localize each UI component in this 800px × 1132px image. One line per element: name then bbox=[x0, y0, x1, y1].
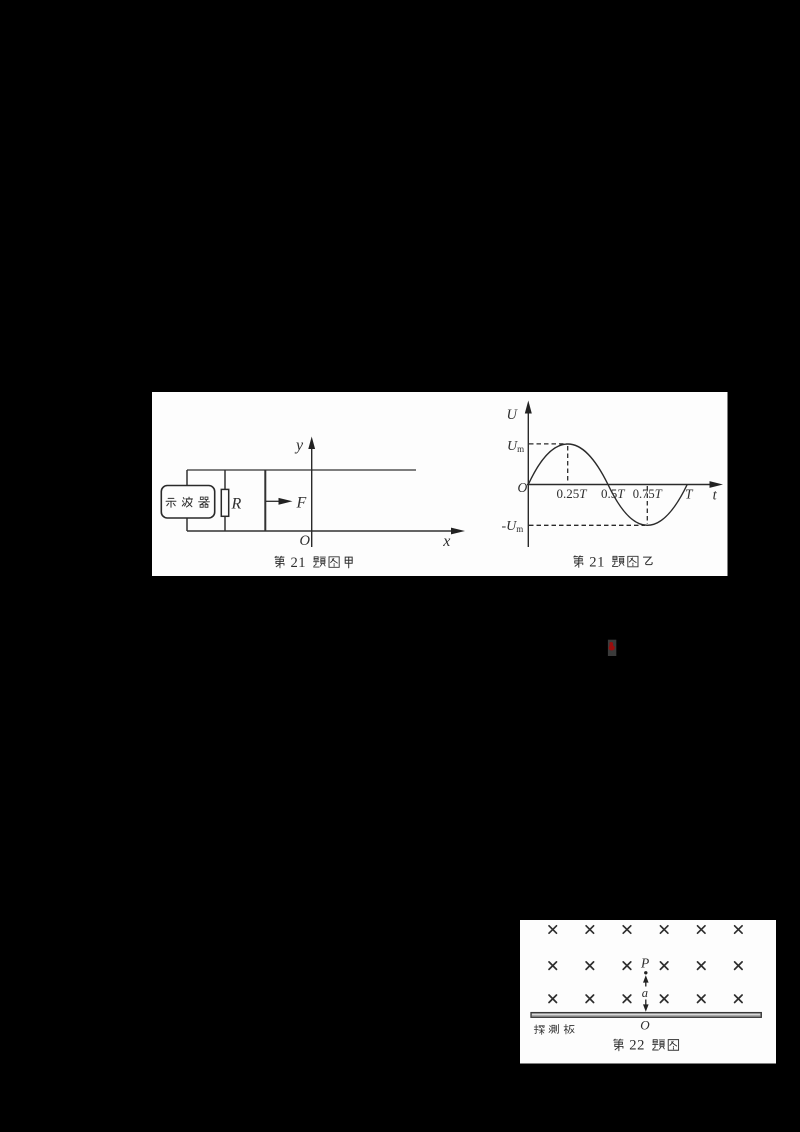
wire through resistor R bbox=[224, 470, 226, 490]
oscilloscope label 器 bbox=[199, 497, 210, 507]
y-axis arrowhead bbox=[308, 437, 315, 450]
y-axis line bbox=[311, 444, 313, 547]
caption 第 21 题图甲 bbox=[275, 556, 284, 568]
oscilloscope label 波 bbox=[182, 497, 192, 507]
x-axis arrowhead bbox=[451, 528, 465, 535]
figure panel 22 (white) bbox=[520, 920, 776, 1064]
point P dot bbox=[644, 971, 647, 974]
sine curve U(t) bbox=[528, 444, 687, 525]
svg-text:O: O bbox=[518, 480, 528, 495]
dimension arrow up (to P) bbox=[645, 980, 647, 987]
svg-text:P: P bbox=[640, 955, 649, 970]
dashed line peak down to 0.25T bbox=[567, 446, 569, 484]
force arrow F head bbox=[279, 498, 293, 505]
t axis arrowhead bbox=[710, 481, 724, 488]
svg-text:O: O bbox=[640, 1018, 650, 1033]
U axis (vertical) bbox=[527, 408, 529, 547]
label 探测板 bbox=[534, 1025, 544, 1035]
U axis arrowhead bbox=[525, 401, 532, 414]
dashed line 0.75T down to trough bbox=[646, 486, 648, 524]
resistor R body bbox=[221, 489, 228, 516]
svg-text:U: U bbox=[507, 407, 519, 423]
wire top rail bbox=[187, 469, 416, 471]
caption 第 21 题图乙 bbox=[574, 556, 583, 568]
wire bottom rail / x-axis bbox=[187, 530, 453, 532]
svg-text:O: O bbox=[300, 533, 311, 549]
red ink mark on black area bbox=[608, 640, 616, 656]
detector plate bar bbox=[531, 1013, 761, 1018]
oscilloscope label 示 bbox=[166, 498, 176, 507]
svg-text:F: F bbox=[296, 495, 307, 512]
force arrow F shaft bbox=[266, 500, 281, 502]
svg-text:a: a bbox=[642, 986, 648, 1000]
field cross grid (B into page) bbox=[549, 926, 742, 1003]
svg-text:x: x bbox=[442, 533, 450, 550]
cross row 1 bbox=[549, 926, 557, 933]
svg-text:22: 22 bbox=[629, 1038, 645, 1054]
svg-text:0.25T: 0.25T bbox=[557, 486, 588, 501]
caption 第 22 题图 bbox=[614, 1039, 623, 1051]
conducting rod bbox=[264, 470, 266, 531]
svg-text:0.75T: 0.75T bbox=[633, 487, 663, 501]
svg-text:0.5T: 0.5T bbox=[601, 486, 625, 501]
figure panel 21 (white) bbox=[152, 392, 728, 576]
wire left vertical (to oscilloscope) bbox=[186, 470, 188, 486]
cross row 3 bbox=[549, 995, 557, 1003]
oscilloscope box 示波器 bbox=[161, 486, 214, 519]
dimension arrow down (to O) bbox=[645, 1000, 647, 1006]
cross row 2 bbox=[549, 962, 557, 970]
svg-text:21: 21 bbox=[291, 555, 307, 571]
svg-text:R: R bbox=[231, 496, 242, 513]
dashed line -Um to trough bbox=[529, 524, 645, 526]
svg-text:y: y bbox=[294, 437, 304, 454]
svg-text:21: 21 bbox=[589, 554, 605, 570]
t axis (horizontal) bbox=[527, 484, 712, 486]
dashed line Um to peak bbox=[529, 443, 567, 445]
